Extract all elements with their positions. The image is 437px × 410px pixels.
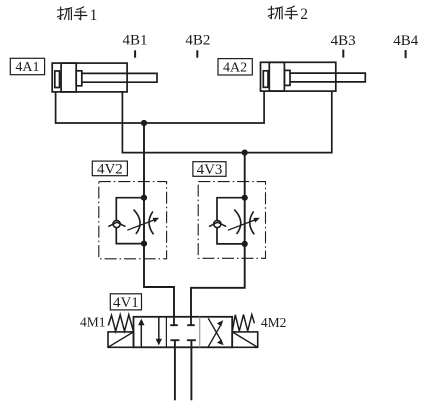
4V1 right solenoid box [232, 332, 258, 347]
svg-text:4B1: 4B1 [122, 32, 147, 48]
svg-text:4A1: 4A1 [15, 60, 39, 75]
4V1 left position up arrow [140, 324, 142, 348]
flow control valve 4V2 [99, 182, 167, 259]
svg-text:4B2: 4B2 [185, 32, 210, 48]
cylinder 4A2 rod collar [284, 70, 290, 85]
junction dot on cap-end line [141, 120, 147, 126]
4V2 check valve seat [108, 222, 125, 226]
junction dot on rod-end line [242, 150, 248, 156]
hanzi 抓 [268, 6, 282, 19]
svg-text:2: 2 [300, 6, 308, 23]
wire from rod-end junction through 4V3 down to valve 4V1 port B [191, 153, 245, 317]
cylinder 4A1 barrel [52, 63, 127, 92]
wire 4V1 exhaust line (bottom right) [190, 340, 192, 400]
4V3 bypass loop [217, 198, 245, 244]
label box 4A2 [218, 59, 252, 76]
4V3 throttle right arc [250, 211, 255, 234]
label box 4V3 [193, 162, 226, 178]
cylinder 4A2 magnet block [263, 71, 268, 88]
4V3 check valve ball [214, 220, 221, 227]
sensor 4B1 [122, 32, 147, 57]
svg-text:4M1: 4M1 [80, 315, 106, 330]
4V1 left solenoid box [108, 332, 134, 347]
4V2 bottom junction dot [141, 241, 147, 247]
cylinder 4A2 barrel [261, 62, 336, 91]
4V1 center position blocked port top-right [187, 317, 195, 325]
4V1 right position crossed arrow 2 [208, 318, 221, 341]
sensor 4B2 [185, 32, 210, 57]
hanzi 抓 [58, 7, 72, 20]
4V1 cell divider right [199, 317, 201, 348]
label 抓手1 (gripper 1 title) [58, 7, 87, 20]
4V1 right spring [232, 315, 254, 332]
hanzi 手 [74, 7, 87, 20]
4V1 left spring [108, 315, 133, 332]
cylinder 4A1 [52, 63, 157, 92]
cylinder 4A2 piston rod [290, 73, 365, 82]
4V2 throttle left arc [134, 210, 140, 234]
label box 4A1 [10, 58, 44, 75]
cylinder 4A1 piston [61, 63, 76, 92]
4V3 throttle left arc [234, 210, 240, 234]
4V2 top junction dot [141, 195, 147, 201]
cylinder 4A2 [261, 62, 366, 91]
cylinder 4A1 magnet block [55, 71, 60, 88]
sensor 4B3 [331, 33, 356, 58]
4V2 enclosure dash-dot box [99, 182, 167, 259]
wire cap-end line (4A1 left port to 4A2 left port) [56, 91, 265, 123]
svg-text:4V3: 4V3 [197, 162, 223, 178]
4V3 top junction dot [242, 195, 248, 201]
svg-text:4M2: 4M2 [261, 315, 287, 330]
4V1 right solenoid diagonal [232, 332, 258, 347]
4V3 check valve seat [209, 222, 226, 226]
svg-text:4V1: 4V1 [113, 295, 139, 311]
cylinder 4A1 piston rod [82, 73, 157, 82]
svg-text:4A2: 4A2 [223, 60, 247, 75]
4V2 check valve ball [113, 220, 120, 227]
svg-text:4V2: 4V2 [97, 161, 123, 177]
wire from cap-end junction through 4V2 down to valve 4V1 port A [144, 123, 174, 317]
hanzi 手 [285, 6, 298, 19]
4V1 cell divider left [165, 317, 167, 348]
4V3 enclosure dash-dot box [198, 182, 265, 259]
svg-text:1: 1 [90, 7, 98, 24]
sensor 4B4 [393, 33, 419, 58]
4V1 center position blocked port top-left [170, 317, 178, 325]
wire 4V1 pressure line (bottom left) [174, 340, 176, 400]
4V2 throttle right arc [149, 211, 154, 234]
4V3 adjustment arrow [228, 220, 256, 231]
4V1 right position crossed arrow 1 [208, 324, 221, 347]
label 抓手2 (gripper 2 title) [268, 6, 297, 19]
4V1 left solenoid diagonal [108, 332, 134, 347]
cylinder 4A2 piston [269, 62, 284, 91]
4V2 bypass loop [116, 198, 144, 244]
svg-text:4B4: 4B4 [393, 33, 419, 49]
wire rod-end line (4A1 right port to 4A2 right port) [122, 91, 331, 153]
cylinder 4A1 rod collar [76, 71, 82, 86]
label box 4V2 [92, 161, 127, 177]
label box 4V1 [110, 294, 141, 311]
4V1 center position blocked port bottom-left [170, 339, 179, 341]
4V1 center position blocked port bottom-right [187, 339, 196, 341]
4V1 left position down arrow [158, 317, 160, 340]
directional valve 4V1 [108, 315, 258, 348]
svg-text:4B3: 4B3 [331, 33, 356, 49]
4V2 adjustment arrow [127, 220, 155, 231]
flow control valve 4V3 [198, 182, 265, 259]
4V3 bottom junction dot [242, 241, 248, 247]
4V1 body [134, 317, 233, 348]
